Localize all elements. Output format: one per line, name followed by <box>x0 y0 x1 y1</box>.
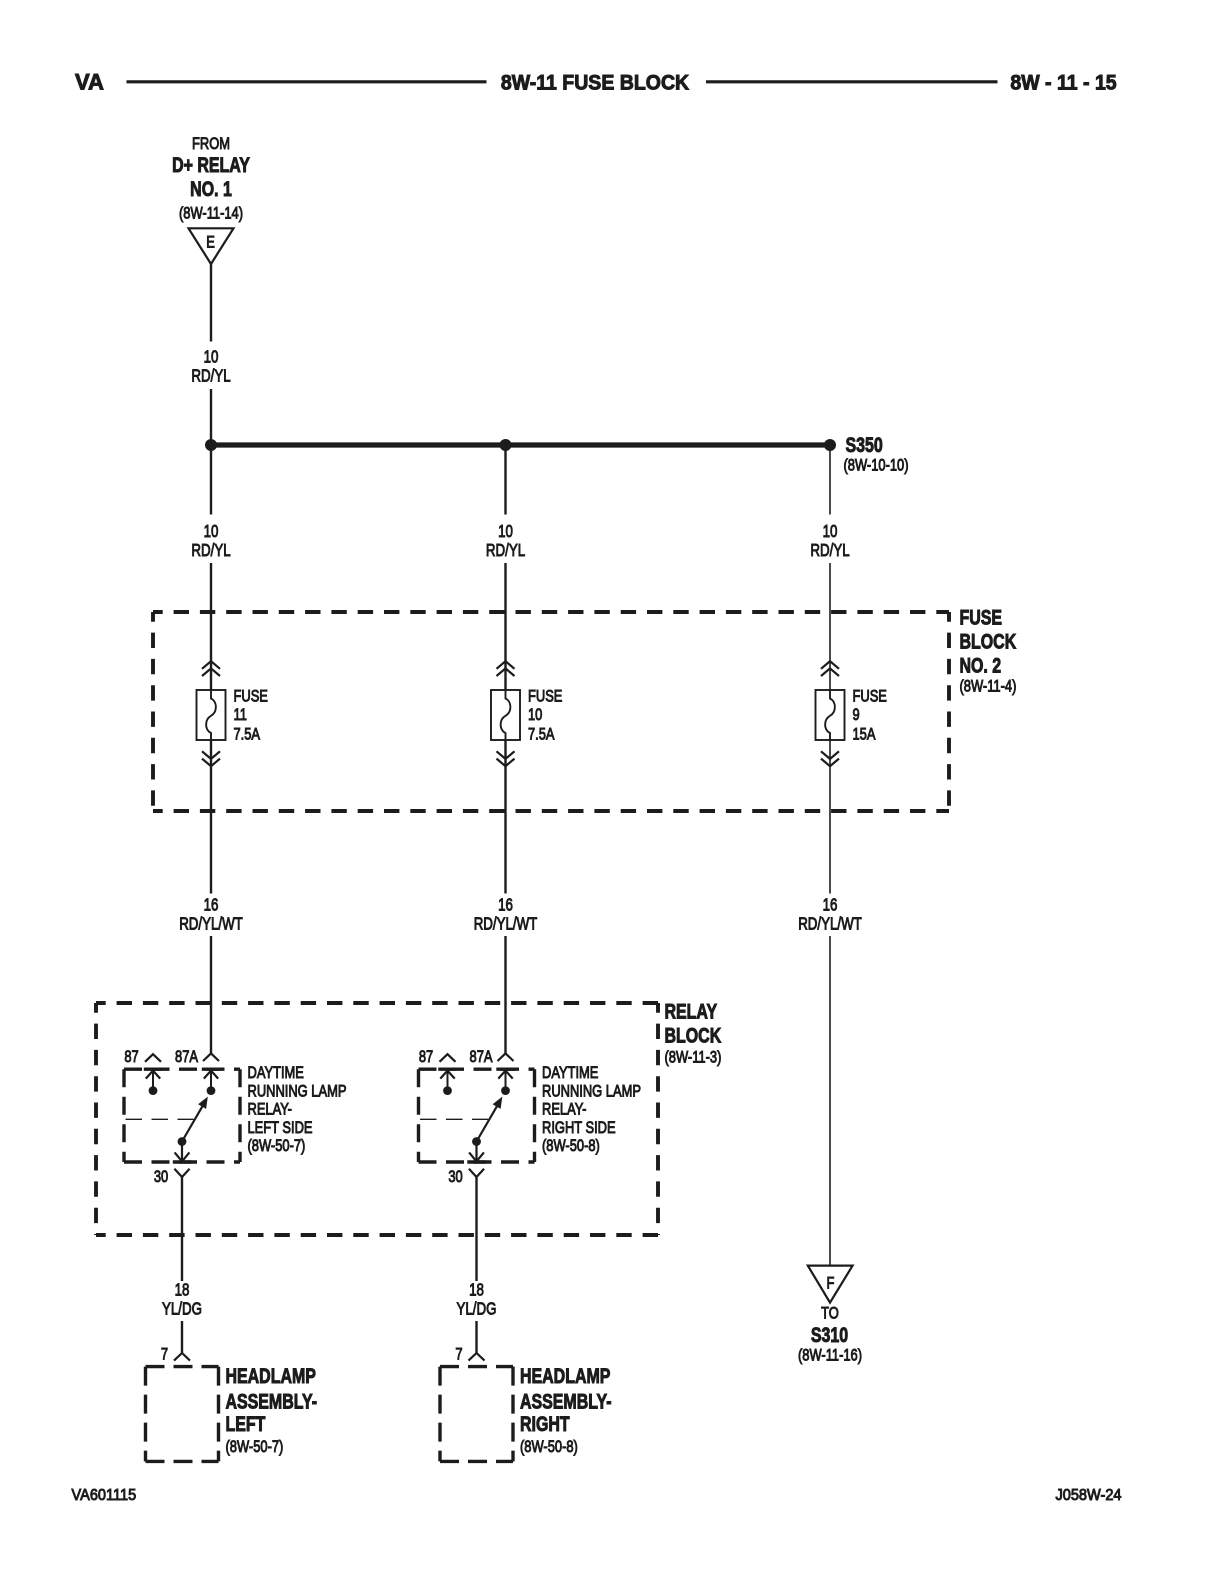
svg-text:RUNNING LAMP: RUNNING LAMP <box>542 1082 641 1101</box>
svg-text:10: 10 <box>528 705 542 724</box>
svg-text:VA: VA <box>75 70 104 95</box>
svg-text:ASSEMBLY-: ASSEMBLY- <box>520 1389 612 1413</box>
svg-text:30: 30 <box>154 1168 168 1187</box>
svg-text:(8W-11-4): (8W-11-4) <box>960 677 1017 696</box>
svg-text:18: 18 <box>175 1281 190 1300</box>
svg-text:E: E <box>206 233 215 252</box>
svg-text:11: 11 <box>234 705 247 724</box>
svg-text:(8W-50-8): (8W-50-8) <box>542 1137 600 1156</box>
svg-text:YL/DG: YL/DG <box>162 1300 202 1319</box>
svg-text:8W - 11 - 15: 8W - 11 - 15 <box>1010 72 1116 95</box>
svg-text:RUNNING LAMP: RUNNING LAMP <box>248 1082 347 1101</box>
svg-text:FUSE: FUSE <box>528 687 562 706</box>
svg-text:30: 30 <box>448 1168 462 1187</box>
svg-text:10: 10 <box>823 522 838 541</box>
svg-text:10: 10 <box>498 522 513 541</box>
svg-text:16: 16 <box>823 896 838 915</box>
svg-text:(8W-50-8): (8W-50-8) <box>520 1437 578 1456</box>
svg-text:(8W-50-7): (8W-50-7) <box>248 1137 306 1156</box>
svg-text:15A: 15A <box>853 725 877 744</box>
svg-text:F: F <box>827 1274 835 1293</box>
svg-text:FUSE: FUSE <box>853 687 887 706</box>
svg-text:RD/YL/WT: RD/YL/WT <box>179 915 243 934</box>
svg-text:8W-11 FUSE BLOCK: 8W-11 FUSE BLOCK <box>501 72 690 95</box>
svg-text:RIGHT SIDE: RIGHT SIDE <box>542 1118 616 1137</box>
svg-text:FUSE: FUSE <box>960 605 1003 629</box>
svg-text:D+ RELAY: D+ RELAY <box>172 153 250 177</box>
svg-text:7.5A: 7.5A <box>234 725 261 744</box>
svg-text:LEFT SIDE: LEFT SIDE <box>248 1118 313 1137</box>
svg-text:HEADLAMP: HEADLAMP <box>226 1364 316 1388</box>
svg-text:87: 87 <box>419 1047 433 1066</box>
svg-text:(8W-50-7): (8W-50-7) <box>226 1437 284 1456</box>
svg-text:(8W-11-14): (8W-11-14) <box>179 204 243 223</box>
svg-text:87A: 87A <box>175 1047 199 1066</box>
svg-text:RELAY: RELAY <box>665 999 718 1023</box>
svg-text:RELAY-: RELAY- <box>248 1100 292 1119</box>
svg-text:RD/YL/WT: RD/YL/WT <box>474 915 538 934</box>
svg-text:NO. 1: NO. 1 <box>190 177 232 201</box>
svg-text:10: 10 <box>204 522 219 541</box>
svg-text:S350: S350 <box>846 433 883 457</box>
svg-text:(8W-11-3): (8W-11-3) <box>665 1048 722 1067</box>
svg-text:7: 7 <box>455 1345 462 1364</box>
svg-text:(8W-10-10): (8W-10-10) <box>844 456 909 475</box>
svg-text:16: 16 <box>204 896 219 915</box>
svg-text:7.5A: 7.5A <box>528 725 555 744</box>
svg-text:9: 9 <box>853 705 860 724</box>
svg-text:RIGHT: RIGHT <box>520 1412 570 1436</box>
svg-text:FUSE: FUSE <box>234 687 268 706</box>
svg-text:RD/YL: RD/YL <box>191 541 230 560</box>
svg-text:HEADLAMP: HEADLAMP <box>520 1364 610 1388</box>
svg-text:7: 7 <box>161 1345 168 1364</box>
svg-text:10: 10 <box>204 348 219 367</box>
svg-text:RD/YL/WT: RD/YL/WT <box>798 915 862 934</box>
svg-text:YL/DG: YL/DG <box>457 1300 497 1319</box>
svg-text:LEFT: LEFT <box>226 1412 266 1436</box>
svg-text:RELAY-: RELAY- <box>542 1100 586 1119</box>
svg-text:J058W-24: J058W-24 <box>1055 1486 1122 1504</box>
svg-text:BLOCK: BLOCK <box>960 629 1017 653</box>
svg-text:VA601115: VA601115 <box>72 1486 137 1504</box>
svg-text:(8W-11-16): (8W-11-16) <box>798 1346 862 1365</box>
svg-text:DAYTIME: DAYTIME <box>248 1063 304 1082</box>
svg-text:RD/YL: RD/YL <box>486 541 525 560</box>
svg-text:DAYTIME: DAYTIME <box>542 1063 598 1082</box>
svg-text:16: 16 <box>498 896 513 915</box>
svg-text:S310: S310 <box>811 1323 848 1347</box>
svg-text:18: 18 <box>469 1281 484 1300</box>
svg-text:87A: 87A <box>470 1047 494 1066</box>
svg-text:87: 87 <box>124 1047 138 1066</box>
svg-text:NO. 2: NO. 2 <box>960 653 1002 677</box>
svg-text:RD/YL: RD/YL <box>191 367 230 386</box>
svg-text:ASSEMBLY-: ASSEMBLY- <box>226 1389 318 1413</box>
svg-text:TO: TO <box>821 1304 839 1323</box>
svg-text:BLOCK: BLOCK <box>665 1024 722 1048</box>
svg-text:RD/YL: RD/YL <box>810 541 849 560</box>
svg-text:FROM: FROM <box>192 134 230 153</box>
